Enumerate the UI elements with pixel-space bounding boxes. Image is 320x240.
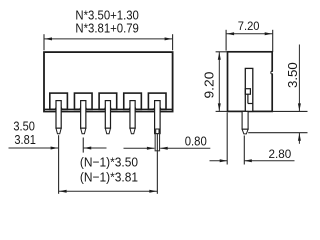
contact spring detail: [245, 89, 253, 104]
socket 1: [50, 93, 68, 109]
extension line side right: [272, 30, 274, 52]
side width dimension line with arrows: [226, 32, 273, 35]
side view pin: [242, 111, 248, 133]
socket 2: [74, 93, 92, 109]
socket 3: [99, 93, 117, 109]
extension line right (front view overall width): [172, 34, 174, 50]
extension line pin 5 center: [156, 134, 158, 194]
extension line side pin center: [243, 136, 245, 165]
pin offset dimension left line with arrow: [210, 159, 228, 162]
svg-text:9.20: 9.20: [203, 72, 217, 99]
extension line side left: [225, 30, 227, 51]
svg-text:(N−1)*3.81: (N−1)*3.81: [80, 170, 138, 185]
side view contact slot: [245, 68, 253, 111]
pin length dimension line lower with arrow: [298, 133, 301, 144]
side view housing body: [228, 52, 273, 112]
svg-text:2.80: 2.80: [269, 149, 292, 161]
side height dimension line with arrows: [218, 52, 221, 112]
svg-text:3.81: 3.81: [14, 133, 36, 147]
svg-text:3.50: 3.50: [286, 62, 300, 88]
dimension line overall width with arrows: [44, 37, 173, 40]
pin offset dimension right line with arrow: [244, 159, 294, 162]
svg-text:N*3.81+0.79: N*3.81+0.79: [75, 21, 138, 36]
extension line side top left: [216, 51, 228, 53]
socket 5: [148, 93, 166, 109]
pin width dimension right line with arrow: [160, 147, 210, 150]
pin 4: [128, 101, 137, 134]
pin 3: [104, 101, 113, 134]
extension line left (front view overall width): [43, 34, 45, 50]
svg-text:(N−1)*3.50: (N−1)*3.50: [80, 155, 138, 170]
extension line pin tip right: [248, 132, 307, 134]
pitch dimension line right part with arrow: [83, 147, 106, 150]
svg-text:7.20: 7.20: [238, 19, 260, 33]
pin 2: [79, 101, 88, 134]
latch notch on side body right edge: [270, 71, 273, 74]
extension line pin 2 center: [82, 138, 84, 153]
front view base line: [44, 108, 173, 110]
pin 5 (long, with crimp box): [153, 101, 162, 151]
pitch dimension line left part with arrow: [9, 147, 59, 150]
pin width dimension left line with arrow: [124, 147, 155, 150]
extension line body bottom right: [272, 110, 307, 112]
pin length dimension line upper with arrow: [298, 45, 301, 112]
pin 1: [54, 101, 63, 134]
overall pitch dimension line bottom with arrows: [59, 190, 158, 193]
extension line pin 1 center: [58, 135, 60, 194]
socket 4: [124, 93, 142, 109]
extension line side body left lower: [226, 113, 228, 165]
svg-text:3.50: 3.50: [13, 120, 35, 134]
extension line side bottom left: [216, 110, 228, 112]
svg-text:0.80: 0.80: [185, 135, 207, 149]
front view housing body: [44, 52, 173, 111]
